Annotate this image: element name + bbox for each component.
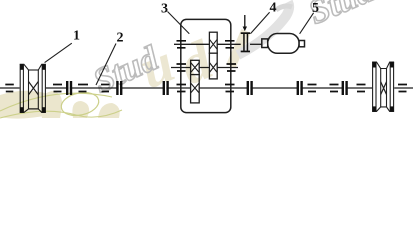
coupling x119 bbox=[119, 81, 120, 96]
pinion P1 on shaft III bbox=[209, 32, 217, 53]
bearing shaft I left edge bbox=[5, 85, 14, 92]
watermark olive curve 1 bbox=[0, 93, 112, 111]
wire shaft I (main bottom shaft y=88) bbox=[0, 87, 413, 89]
leader 2 bbox=[96, 44, 116, 86]
pulley flange lines bbox=[19, 64, 21, 112]
watermark beige patch bbox=[98, 103, 120, 118]
arrow above coupling 4 bbox=[243, 15, 247, 31]
motor left stub bbox=[262, 39, 268, 48]
bearing shaft I x334 bbox=[330, 85, 339, 92]
leader 3 bbox=[168, 12, 190, 34]
pulley top groove bbox=[372, 62, 394, 69]
watermark olive ellipse bbox=[59, 89, 101, 118]
bearing shaft II right bbox=[227, 64, 237, 71]
coupling x299.5 bbox=[299, 81, 300, 96]
leader 4 bbox=[250, 12, 269, 34]
motor right stub bbox=[299, 41, 304, 47]
watermark gray swoosh top-right bbox=[238, 2, 289, 55]
pulley flange caps filled bbox=[373, 62, 376, 68]
gearbox housing bbox=[181, 19, 231, 112]
coupling x165.5 bbox=[165, 81, 166, 96]
pulley X bbox=[29, 82, 39, 95]
motor body bbox=[268, 34, 299, 54]
svg-text:1: 1 bbox=[73, 29, 80, 44]
bearing shaft III right bbox=[225, 41, 235, 48]
bearing shaft I gearbox left wall bbox=[177, 85, 187, 92]
pulley top groove bbox=[20, 64, 46, 70]
pulley bottom groove bbox=[20, 109, 46, 113]
bearing shaft I x361 bbox=[357, 85, 366, 92]
bearing shaft III left bbox=[177, 41, 187, 48]
leader 1 bbox=[45, 43, 72, 62]
coupling x344.5 bbox=[344, 81, 345, 96]
gear G2 on shaft I bbox=[191, 75, 200, 103]
svg-text:3: 3 bbox=[161, 2, 168, 17]
svg-text:Stud: Stud bbox=[303, 0, 380, 32]
leader 5 bbox=[300, 13, 314, 34]
coupling x69 bbox=[68, 81, 69, 96]
pulley hub sides bbox=[28, 70, 30, 109]
pulley hub sides bbox=[380, 69, 382, 107]
bearing shaft I x105 bbox=[101, 85, 110, 92]
bearing shaft II left bbox=[177, 64, 187, 71]
bearing shaft I x402 bbox=[398, 85, 407, 92]
bearing shaft I gearbox right wall bbox=[225, 85, 235, 92]
coupling x249.5 bbox=[249, 81, 250, 96]
watermark beige blob bottom-left bbox=[40, 91, 62, 118]
pulley bottom groove bbox=[372, 107, 394, 112]
watermark olive curve 2 bbox=[0, 110, 122, 118]
bearing shaft I x83 bbox=[78, 85, 88, 92]
watermark beige stem bbox=[231, 31, 246, 66]
pulley X bbox=[381, 82, 387, 95]
pulley flange caps filled bbox=[20, 64, 23, 70]
wire shaft II (middle gearbox shaft y=67.5) bbox=[171, 67, 238, 69]
pinion P2 on shaft II bbox=[191, 60, 200, 74]
pulley flange lines bbox=[372, 62, 374, 111]
wire motor shaft stub bbox=[250, 43, 262, 45]
bearing shaft I x312 bbox=[308, 85, 317, 92]
bearing shaft I after left pulley bbox=[53, 85, 62, 92]
wire shaft III (top motor shaft y=44.3) bbox=[174, 43, 241, 45]
svg-text:2: 2 bbox=[117, 31, 124, 46]
gear G1 on shaft II bbox=[209, 53, 217, 79]
